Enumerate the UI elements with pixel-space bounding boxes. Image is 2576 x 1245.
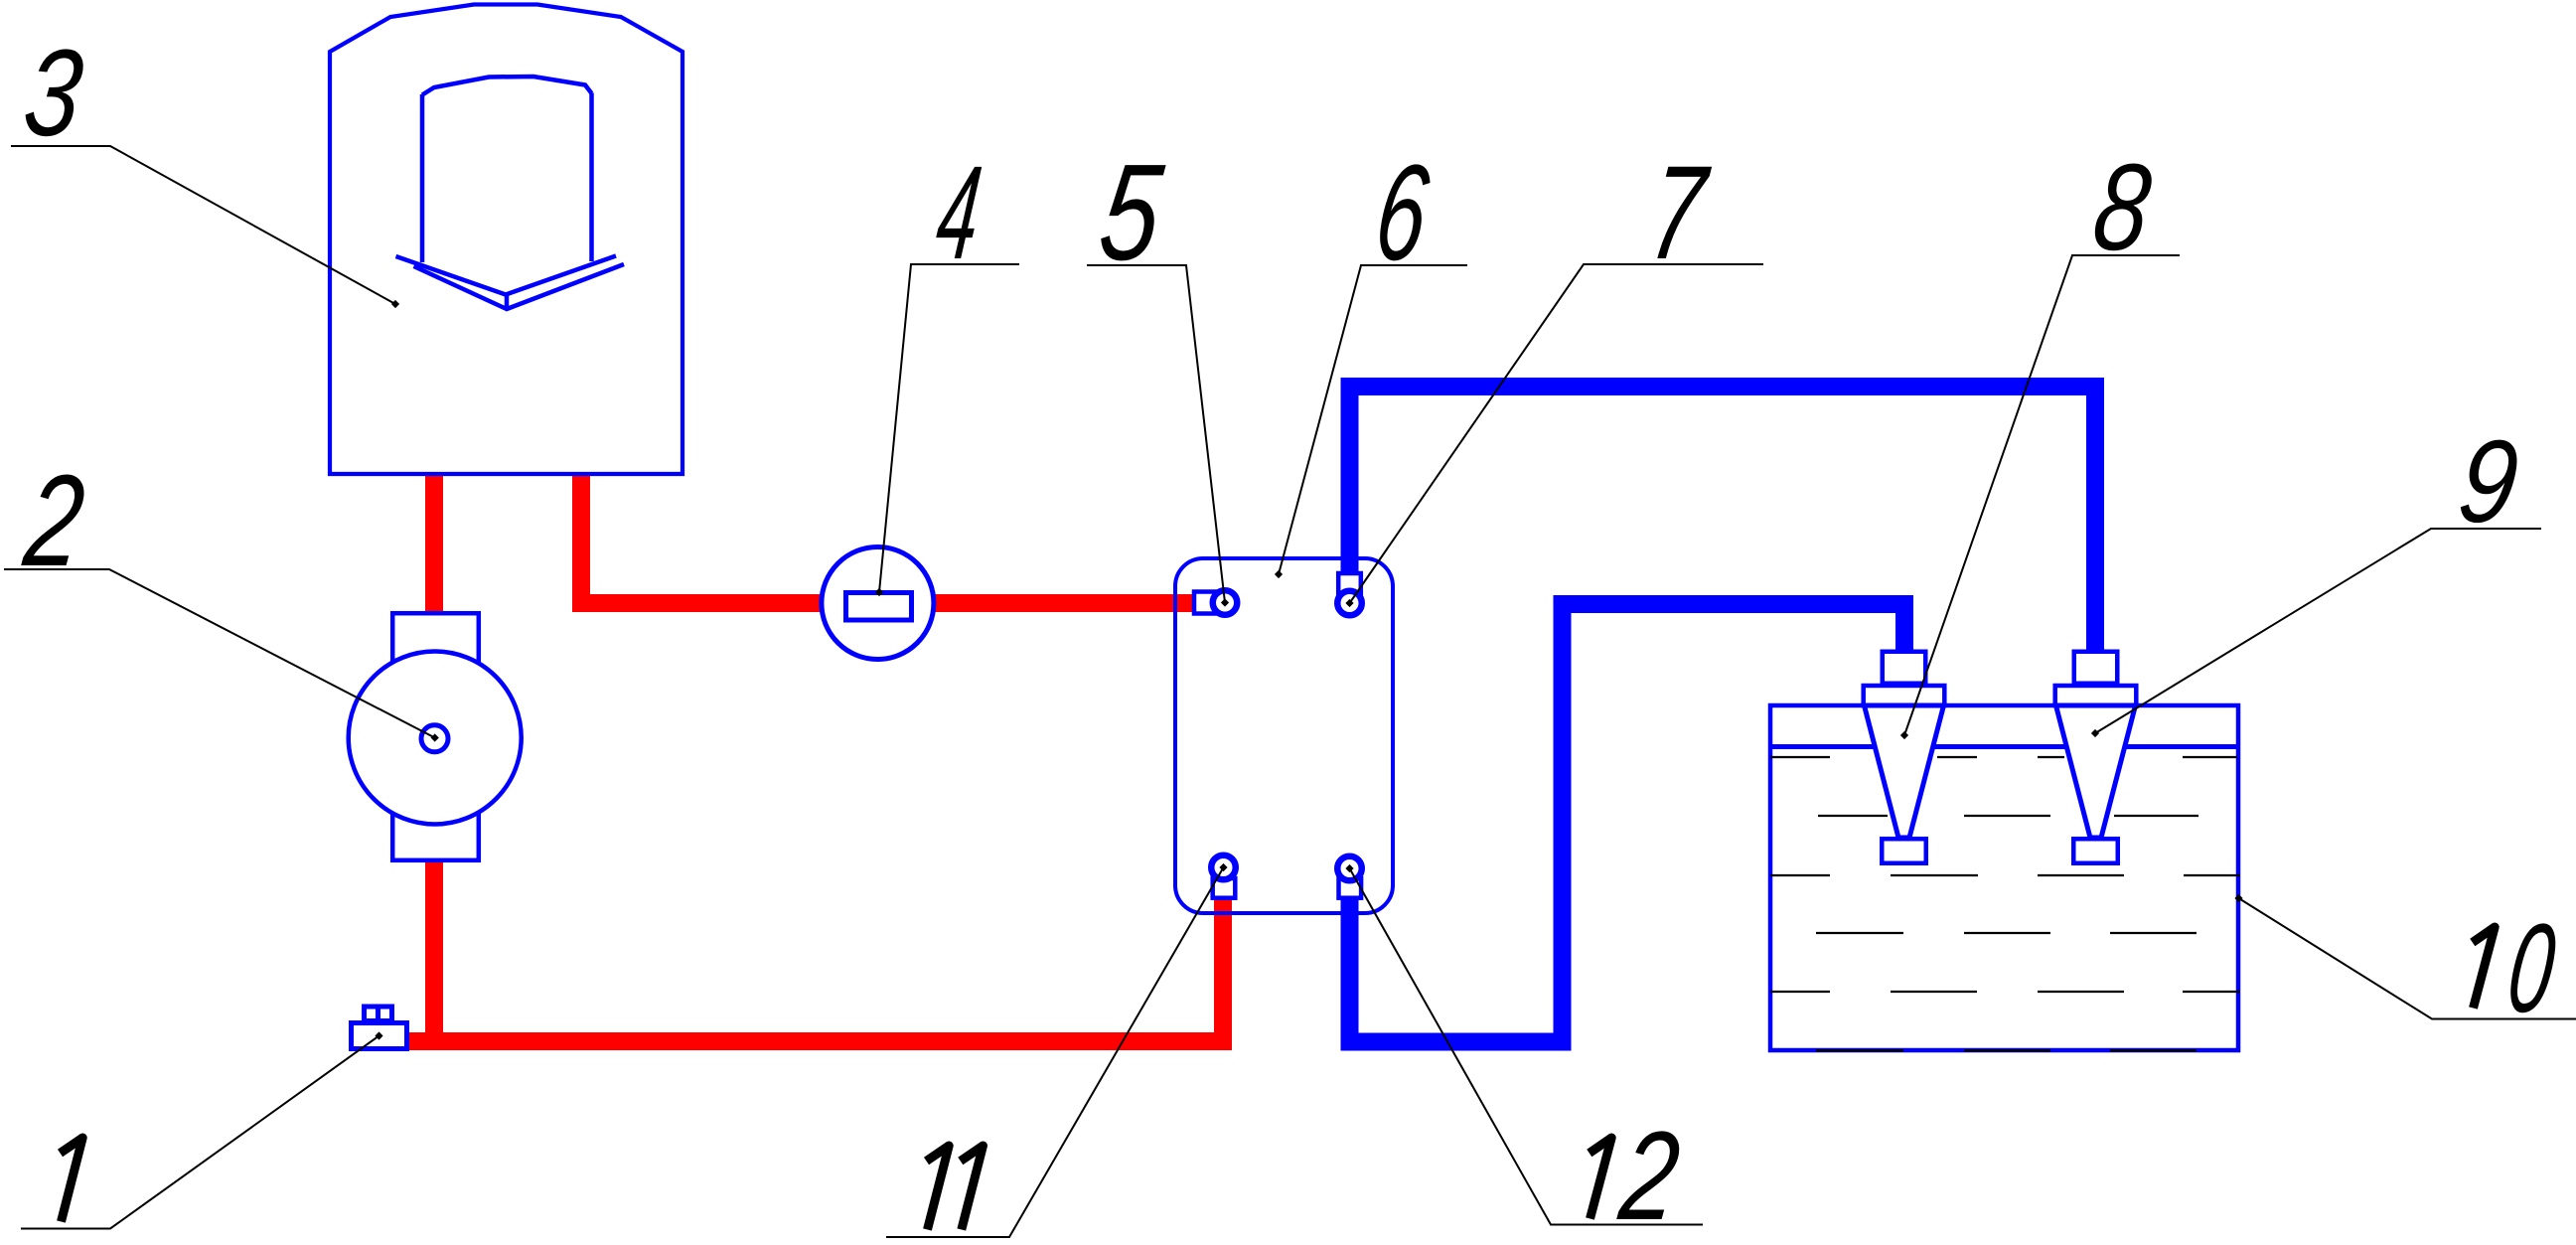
- tank 10 waterline: [1770, 744, 2237, 749]
- leader line label 7: [1350, 264, 1764, 603]
- marker 10: [2234, 894, 2242, 902]
- hydrocyclone 9 cone: [2056, 705, 2136, 838]
- leader line label 3: [11, 146, 395, 304]
- marker 6: [1275, 570, 1283, 578]
- pump 2 main circle: [349, 652, 522, 825]
- marker 3: [391, 300, 399, 308]
- boiler 3 inner bag left wall: [420, 94, 425, 262]
- wire: red pipe pump bottom down to valve corner: [425, 861, 443, 1041]
- port 11 fitting rect: [1213, 878, 1236, 898]
- boiler 3 upper V deflector: [396, 256, 617, 295]
- marker 11: [1219, 863, 1227, 871]
- wire: red pipe bottom horizontal run to port 11 riser: [409, 899, 1223, 1041]
- boiler 3 V tip tick: [505, 294, 510, 309]
- valve 1 cap: [365, 1007, 392, 1021]
- boiler 3 lower V deflector: [414, 264, 625, 309]
- wire: red pipe boiler left outlet down to pump: [425, 474, 443, 612]
- leader line label 2: [4, 569, 435, 738]
- boiler 3 inner bag top arc: [422, 77, 592, 95]
- leader line label 11: [886, 867, 1224, 1237]
- hydrocyclone 8 cone: [1865, 705, 1944, 838]
- port 12 fitting rect: [1339, 878, 1362, 898]
- marker 7: [1345, 599, 1353, 607]
- label 1: [61, 1138, 83, 1222]
- marker 9: [2091, 729, 2099, 737]
- leader line label 6: [1279, 265, 1467, 574]
- hydrocyclone 9 cap: [2055, 686, 2137, 705]
- wire: blue pipe from port 7 up over to right cyclone 9: [1350, 387, 2096, 658]
- marker 8: [1900, 731, 1908, 739]
- hydrocyclone 9 stem: [2074, 652, 2118, 684]
- hydrocyclone 9 underflow pot: [2073, 839, 2118, 863]
- valve 1 cap divider: [376, 1005, 380, 1020]
- hydrocyclone 8 cap: [1864, 686, 1945, 705]
- port 5 ring: [1213, 590, 1238, 615]
- tank 10 ripple row 1: [1770, 756, 2237, 758]
- tank 10 ripple row 5: [1770, 991, 2240, 993]
- wire: red pipe boiler right outlet to flow meter to heat exchanger port 5: [581, 474, 1196, 603]
- boiler vessel 3 outer shell: [330, 5, 682, 475]
- hydrocyclone 8 stem: [1883, 652, 1926, 684]
- marker 4: [875, 588, 883, 596]
- leader line label 9: [2095, 529, 2541, 733]
- port 12 ring: [1337, 856, 1362, 881]
- marker 1: [375, 1031, 382, 1039]
- wire: blue pipe from port 12 down right up across to left cyclone 8: [1350, 604, 1905, 1042]
- tank 10 ripple row 3: [1770, 874, 2240, 876]
- boiler 3 inner bag right wall: [589, 93, 594, 262]
- port 7 ring: [1337, 591, 1362, 616]
- leader line label 12: [1350, 868, 1704, 1225]
- port 11 ring: [1211, 856, 1236, 880]
- leader line label 5: [1087, 265, 1225, 603]
- pump 2 hub circle: [421, 725, 448, 752]
- marker 5: [1221, 598, 1229, 606]
- leader line label 4: [879, 264, 1019, 592]
- label 12: [1590, 1138, 1611, 1219]
- valve 1 body: [352, 1023, 407, 1049]
- flow meter 4 circle: [822, 547, 934, 660]
- heat exchanger 6 body: [1175, 558, 1393, 913]
- label 10: [2473, 927, 2495, 1009]
- marker 12: [1345, 864, 1353, 872]
- leader line label 8: [1904, 255, 2180, 735]
- label 11: [927, 1146, 950, 1230]
- tank 10 outline: [1770, 705, 2238, 1050]
- marker 2: [431, 733, 439, 741]
- leader line label 10: [2239, 898, 2576, 1019]
- port 5 fitting rect: [1194, 592, 1224, 614]
- flow meter 4 inner rectangle: [846, 593, 912, 621]
- tank 10 ripple row 6 on bottom edge: [1816, 1049, 2197, 1052]
- hydrocyclone 8 underflow pot: [1882, 839, 1926, 863]
- tank 10 ripple row 2: [1818, 815, 2198, 817]
- port 7 fitting rect: [1338, 573, 1361, 597]
- tank 10 ripple row 4: [1816, 932, 2197, 934]
- leader line label 1: [21, 1036, 379, 1229]
- pump 2 body rectangle: [392, 613, 479, 860]
